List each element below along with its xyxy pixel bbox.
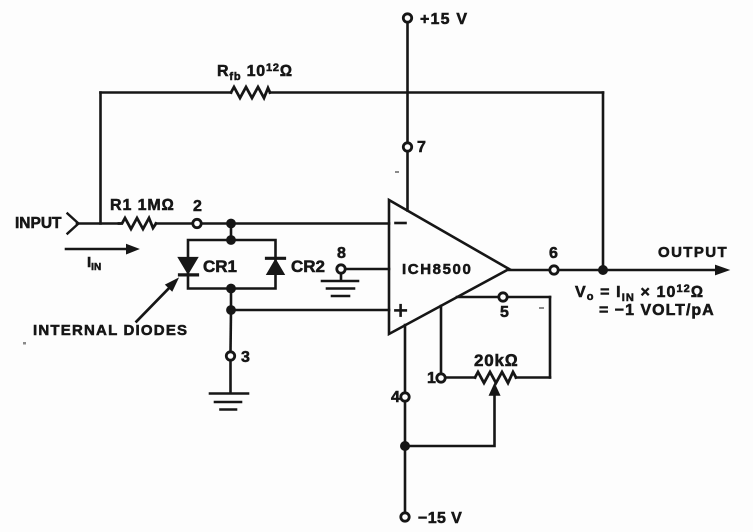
pin 4 terminal xyxy=(401,393,409,401)
op-amp plus input sign xyxy=(395,305,405,315)
pin 5 terminal xyxy=(499,293,507,301)
terminal +15V xyxy=(403,14,411,22)
node INPUT terminal chevron xyxy=(68,214,79,234)
junction node box bottom xyxy=(226,284,236,294)
svg-text:5: 5 xyxy=(500,304,509,321)
svg-text:Rfb 1012Ω: Rfb 1012Ω xyxy=(217,62,293,83)
wire plus input xyxy=(231,309,389,312)
terminal -15V xyxy=(401,513,409,521)
wire pin 3 to ground xyxy=(229,361,232,394)
resistor Rfb xyxy=(231,87,270,98)
junction node box top xyxy=(226,235,236,245)
wire 20k right lead xyxy=(516,376,550,379)
svg-text:1: 1 xyxy=(427,370,436,387)
pin 3 terminal xyxy=(226,352,234,360)
junction node plus input xyxy=(226,305,236,315)
svg-text:R1 1MΩ: R1 1MΩ xyxy=(110,197,175,214)
svg-text:ICH8500: ICH8500 xyxy=(402,261,472,278)
wire R1 to op-amp minus input xyxy=(156,222,389,225)
wire pin 4 / V- vertical xyxy=(404,325,407,513)
wire diode box bottom stub to plus node xyxy=(230,289,233,311)
pin 6 terminal xyxy=(550,266,558,274)
junction node V- rail / wiper xyxy=(400,441,410,451)
resistor R1 xyxy=(119,218,156,229)
wire pot wiper xyxy=(405,389,495,446)
pin 2 terminal xyxy=(193,219,201,227)
internal diodes callout arrow xyxy=(137,284,174,322)
svg-text:CR1: CR1 xyxy=(203,257,237,276)
wire feedback right vertical xyxy=(602,93,605,271)
wire 20k left lead xyxy=(445,376,475,379)
diode CR2 xyxy=(267,258,285,274)
wire +15V supply vertical to pin 7 xyxy=(406,22,409,211)
output arrowhead xyxy=(716,265,729,274)
wire feedback top left xyxy=(101,91,232,94)
junction node above diode box xyxy=(226,219,236,229)
wire pin 8 to op-amp xyxy=(345,268,389,271)
diode CR1 xyxy=(179,258,198,275)
callout arrowhead xyxy=(166,279,178,291)
resistor 20k potentiometer xyxy=(475,372,516,383)
svg-text:3: 3 xyxy=(241,349,250,366)
pin 1 terminal xyxy=(437,374,445,382)
svg-text:CR2: CR2 xyxy=(291,257,325,276)
svg-text:INTERNAL DIODES: INTERNAL DIODES xyxy=(33,322,188,339)
wire plus node down to pin 3 xyxy=(229,310,232,352)
op-amp minus input sign xyxy=(396,222,406,225)
svg-text:= −1 VOLT/pA: = −1 VOLT/pA xyxy=(599,302,715,319)
junction node output/feedback xyxy=(598,265,608,275)
wire op-amp output xyxy=(509,269,719,272)
wire diode box top stub xyxy=(230,224,233,241)
svg-text:8: 8 xyxy=(337,245,346,262)
svg-text:INPUT: INPUT xyxy=(15,215,62,232)
svg-text:20kΩ: 20kΩ xyxy=(474,351,519,370)
ground (pin 3) xyxy=(210,394,248,410)
svg-text:6: 6 xyxy=(549,245,558,262)
pin 7 terminal xyxy=(403,143,411,151)
svg-text:4: 4 xyxy=(391,389,400,406)
op-amp U1 ICH8500 triangle xyxy=(389,200,509,334)
svg-text:−15 V: −15 V xyxy=(418,510,462,527)
wire feedback top right xyxy=(270,91,603,94)
wire pin 5 horizontal xyxy=(457,296,550,299)
svg-text:2: 2 xyxy=(193,198,202,215)
diode network box xyxy=(188,240,276,289)
wire I_IN current arrow xyxy=(66,248,128,251)
pin 8 terminal xyxy=(337,265,345,273)
wire input to R1 xyxy=(77,222,120,225)
I_IN arrowhead xyxy=(127,245,139,254)
wire pin 5 right vertical xyxy=(549,297,552,378)
svg-text:+15 V: +15 V xyxy=(420,11,468,28)
ground (pin 8) xyxy=(322,274,358,297)
svg-text:OUTPUT: OUTPUT xyxy=(658,244,728,261)
wire pin 1 vertical xyxy=(440,306,443,374)
svg-text:7: 7 xyxy=(417,139,426,156)
wire feedback left vertical xyxy=(99,93,102,224)
pot wiper arrowhead xyxy=(489,384,500,396)
